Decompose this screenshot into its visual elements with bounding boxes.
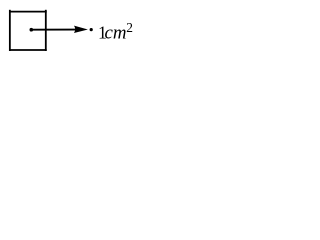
square: right side [45,10,47,51]
dot at start of leader line [30,28,34,32]
square (1 cm x 1 cm): left side [9,10,11,51]
square: bottom side [9,49,47,51]
svg-text:cm: cm [105,22,127,43]
svg-text:2: 2 [126,20,133,35]
endpoint dot [90,28,93,31]
wire: leader line from square centre to arrowhead [31,29,75,31]
square: top side [9,11,47,13]
arrowhead [74,26,88,33]
